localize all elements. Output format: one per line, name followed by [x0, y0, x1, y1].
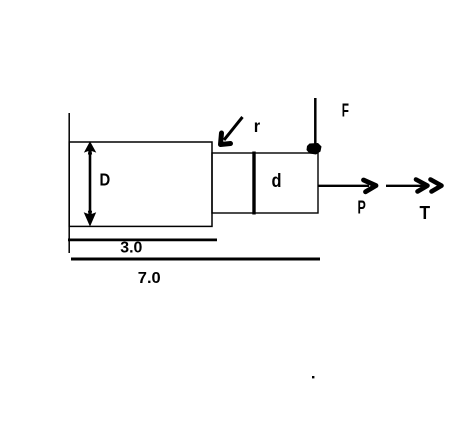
extension line at left of large shaft: [68, 113, 70, 253]
svg-text:d: d: [272, 171, 282, 192]
svg-text:F: F: [342, 101, 349, 121]
large shaft section (diameter D): [69, 142, 212, 226]
svg-text:r: r: [254, 116, 261, 136]
small shaft section (diameter d): [212, 153, 318, 213]
dimension arrow D (double-headed vertical): [84, 141, 97, 226]
dimension line 7.0: [71, 258, 320, 261]
svg-text:7.0: 7.0: [138, 270, 161, 287]
dimension line 3.0: [68, 239, 217, 242]
svg-text:3.0: 3.0: [120, 240, 142, 257]
force F arrow (vertical, arrowhead blob at shaft surface): [307, 98, 322, 155]
shoulder line inside small shaft: [252, 152, 255, 215]
fillet radius arrow r: [221, 117, 243, 145]
torque T double-arrow: [386, 180, 442, 192]
svg-text:P: P: [358, 197, 366, 218]
axial force P arrow: [318, 180, 376, 192]
stray dot: [312, 376, 314, 378]
svg-text:D: D: [100, 170, 111, 190]
svg-text:T: T: [420, 203, 431, 223]
